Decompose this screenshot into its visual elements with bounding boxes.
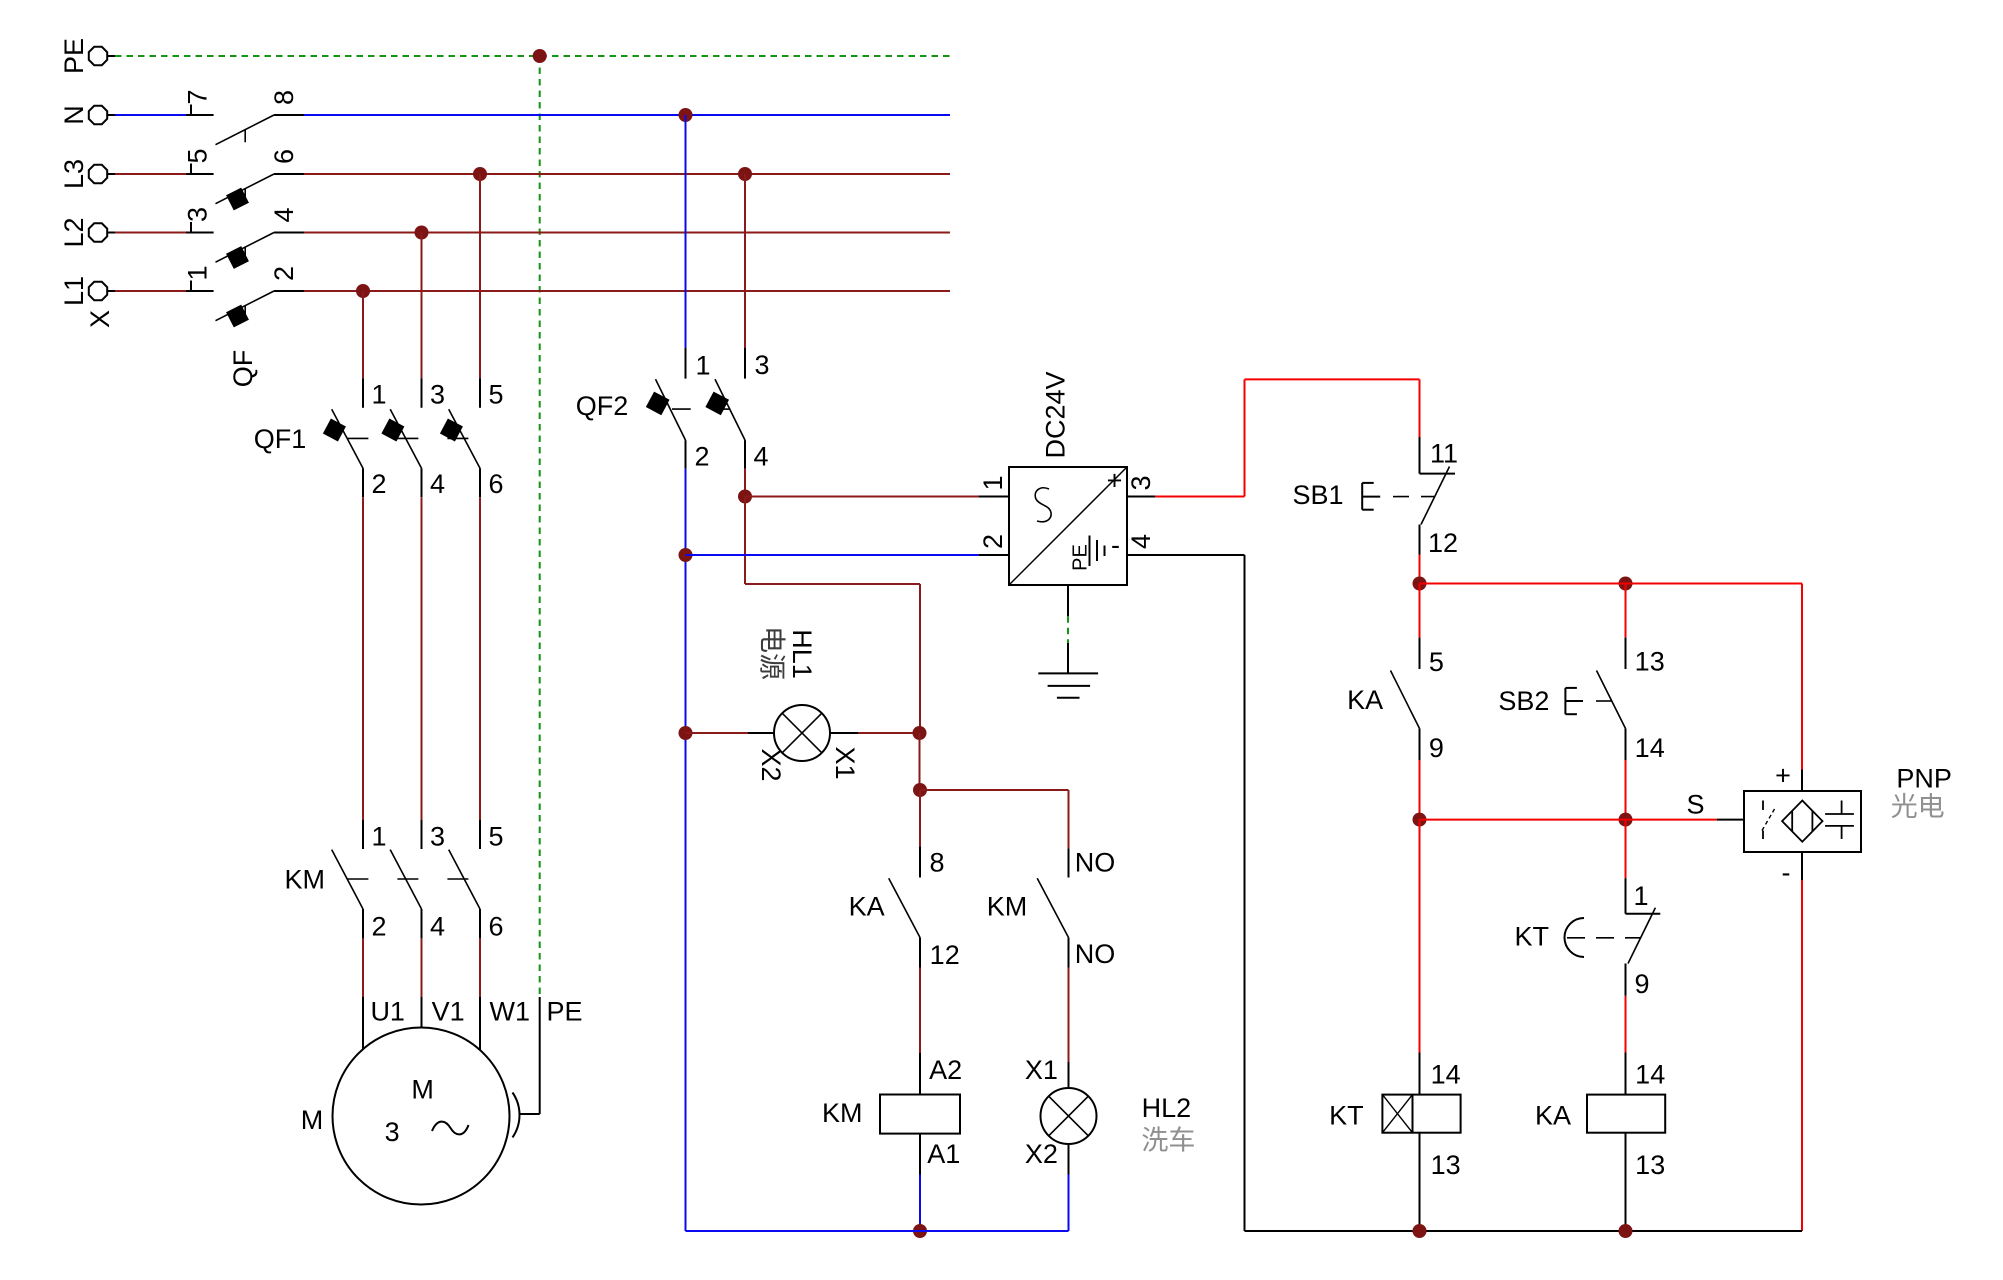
- svg-text:光电: 光电: [1891, 792, 1945, 822]
- svg-text:A1: A1: [927, 1139, 960, 1169]
- svg-text:U1: U1: [370, 997, 405, 1027]
- svg-text:电源: 电源: [757, 626, 787, 680]
- svg-text:8: 8: [269, 90, 299, 105]
- svg-text:-: -: [1111, 530, 1120, 560]
- svg-text:1: 1: [183, 265, 213, 280]
- svg-text:PE: PE: [1070, 544, 1092, 571]
- svg-text:14: 14: [1635, 1060, 1665, 1090]
- svg-text:KT: KT: [1329, 1101, 1364, 1131]
- svg-text:13: 13: [1431, 1150, 1461, 1180]
- svg-text:L3: L3: [59, 159, 89, 189]
- svg-text:L2: L2: [59, 217, 89, 247]
- svg-text:6: 6: [488, 912, 503, 942]
- svg-text:PE: PE: [546, 997, 582, 1027]
- svg-text:HL2: HL2: [1142, 1093, 1192, 1123]
- svg-text:14: 14: [1431, 1060, 1461, 1090]
- svg-text:6: 6: [488, 469, 503, 499]
- svg-text:+: +: [1107, 466, 1123, 496]
- svg-text:SB2: SB2: [1498, 686, 1549, 716]
- svg-text:S: S: [1686, 790, 1704, 820]
- svg-text:3: 3: [385, 1117, 400, 1147]
- svg-text:NO: NO: [1075, 939, 1116, 969]
- svg-text:4: 4: [1126, 534, 1156, 549]
- svg-text:NO: NO: [1075, 848, 1116, 878]
- svg-text:X: X: [85, 310, 115, 328]
- svg-text:QF: QF: [228, 350, 258, 388]
- svg-text:5: 5: [488, 380, 503, 410]
- svg-text:KA: KA: [1347, 685, 1383, 715]
- svg-text:4: 4: [269, 207, 299, 222]
- svg-text:3: 3: [430, 822, 445, 852]
- svg-text:3: 3: [754, 350, 769, 380]
- svg-text:3: 3: [430, 380, 445, 410]
- svg-text:QF2: QF2: [576, 391, 629, 421]
- svg-text:N: N: [59, 105, 89, 125]
- svg-text:KA: KA: [1535, 1101, 1571, 1131]
- svg-text:1: 1: [1633, 881, 1648, 911]
- svg-text:+: +: [1775, 761, 1791, 791]
- svg-text:KM: KM: [987, 892, 1028, 922]
- svg-text:KM: KM: [284, 865, 325, 895]
- svg-text:12: 12: [930, 940, 960, 970]
- svg-text:M: M: [411, 1075, 434, 1105]
- svg-text:X2: X2: [756, 748, 786, 781]
- svg-text:2: 2: [269, 266, 299, 281]
- svg-text:9: 9: [1429, 733, 1444, 763]
- svg-text:KT: KT: [1515, 922, 1550, 952]
- svg-text:W1: W1: [490, 997, 531, 1027]
- svg-text:6: 6: [269, 149, 299, 164]
- svg-text:4: 4: [753, 442, 768, 472]
- svg-text:14: 14: [1635, 733, 1665, 763]
- svg-text:3: 3: [1126, 475, 1156, 490]
- svg-text:2: 2: [371, 469, 386, 499]
- svg-text:5: 5: [488, 822, 503, 852]
- svg-text:11: 11: [1430, 439, 1458, 469]
- svg-text:8: 8: [929, 848, 944, 878]
- svg-text:7: 7: [183, 89, 213, 104]
- svg-text:L1: L1: [59, 276, 89, 306]
- svg-text:-: -: [1782, 858, 1791, 888]
- svg-text:2: 2: [978, 534, 1008, 549]
- svg-text:X2: X2: [1025, 1139, 1058, 1169]
- svg-text:9: 9: [1634, 969, 1649, 999]
- svg-text:KM: KM: [822, 1098, 863, 1128]
- svg-text:2: 2: [371, 912, 386, 942]
- svg-text:1: 1: [371, 822, 386, 852]
- svg-text:1: 1: [371, 380, 386, 410]
- svg-text:SB1: SB1: [1292, 480, 1343, 510]
- svg-text:A2: A2: [929, 1055, 962, 1085]
- svg-text:PNP: PNP: [1896, 764, 1952, 794]
- svg-text:13: 13: [1635, 647, 1665, 677]
- svg-text:2: 2: [694, 442, 709, 472]
- svg-text:洗车: 洗车: [1141, 1125, 1195, 1155]
- svg-text:HL1: HL1: [787, 629, 817, 679]
- svg-text:1: 1: [695, 351, 710, 381]
- svg-text:5: 5: [183, 148, 213, 163]
- svg-text:X1: X1: [830, 746, 860, 779]
- svg-text:12: 12: [1428, 528, 1458, 558]
- svg-text:KA: KA: [849, 892, 885, 922]
- svg-text:3: 3: [183, 207, 213, 222]
- svg-text:5: 5: [1429, 647, 1444, 677]
- svg-text:DC24V: DC24V: [1041, 371, 1071, 458]
- svg-text:X1: X1: [1025, 1055, 1058, 1085]
- svg-text:4: 4: [430, 469, 445, 499]
- svg-text:4: 4: [430, 912, 445, 942]
- svg-text:1: 1: [978, 475, 1008, 490]
- svg-text:13: 13: [1635, 1150, 1665, 1180]
- svg-text:V1: V1: [432, 997, 465, 1027]
- svg-text:PE: PE: [59, 38, 89, 74]
- svg-text:M: M: [301, 1105, 324, 1135]
- svg-text:QF1: QF1: [254, 424, 307, 454]
